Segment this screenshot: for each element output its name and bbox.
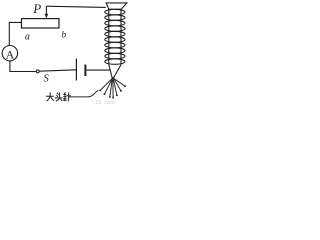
svg-text:S: S xyxy=(44,74,50,85)
leader line from label to pins xyxy=(69,90,98,97)
svg-text:a: a xyxy=(25,32,30,43)
battery long plate xyxy=(75,59,77,81)
wire slider to coil top xyxy=(46,6,105,7)
slider arrow P xyxy=(45,6,49,18)
switch S pivot xyxy=(36,70,39,73)
battery short plate xyxy=(84,65,86,77)
大 xyxy=(46,95,53,97)
nail taper to tip xyxy=(109,65,113,79)
wire battery to coil bottom xyxy=(86,69,110,71)
svg-text:P: P xyxy=(32,1,41,16)
pins attracted to nail tip xyxy=(99,77,126,98)
头 xyxy=(57,93,58,94)
label 大头针 (hand drawn strokes) xyxy=(46,93,70,101)
wire rheostat left to ammeter xyxy=(9,22,21,45)
svg-text:A: A xyxy=(6,48,15,62)
faint watermark remnants xyxy=(95,100,115,106)
nail shank xyxy=(108,9,110,65)
nail head xyxy=(106,3,127,9)
rheostat R (slide rheostat body) xyxy=(22,19,60,28)
wire ammeter to switch xyxy=(10,61,36,72)
coil winding (10 turns) xyxy=(105,9,125,64)
ammeter A xyxy=(2,46,17,61)
svg-text:15. com: 15. com xyxy=(95,100,115,105)
switch blade xyxy=(39,70,76,71)
针 xyxy=(64,93,66,95)
svg-text:b: b xyxy=(61,31,66,41)
